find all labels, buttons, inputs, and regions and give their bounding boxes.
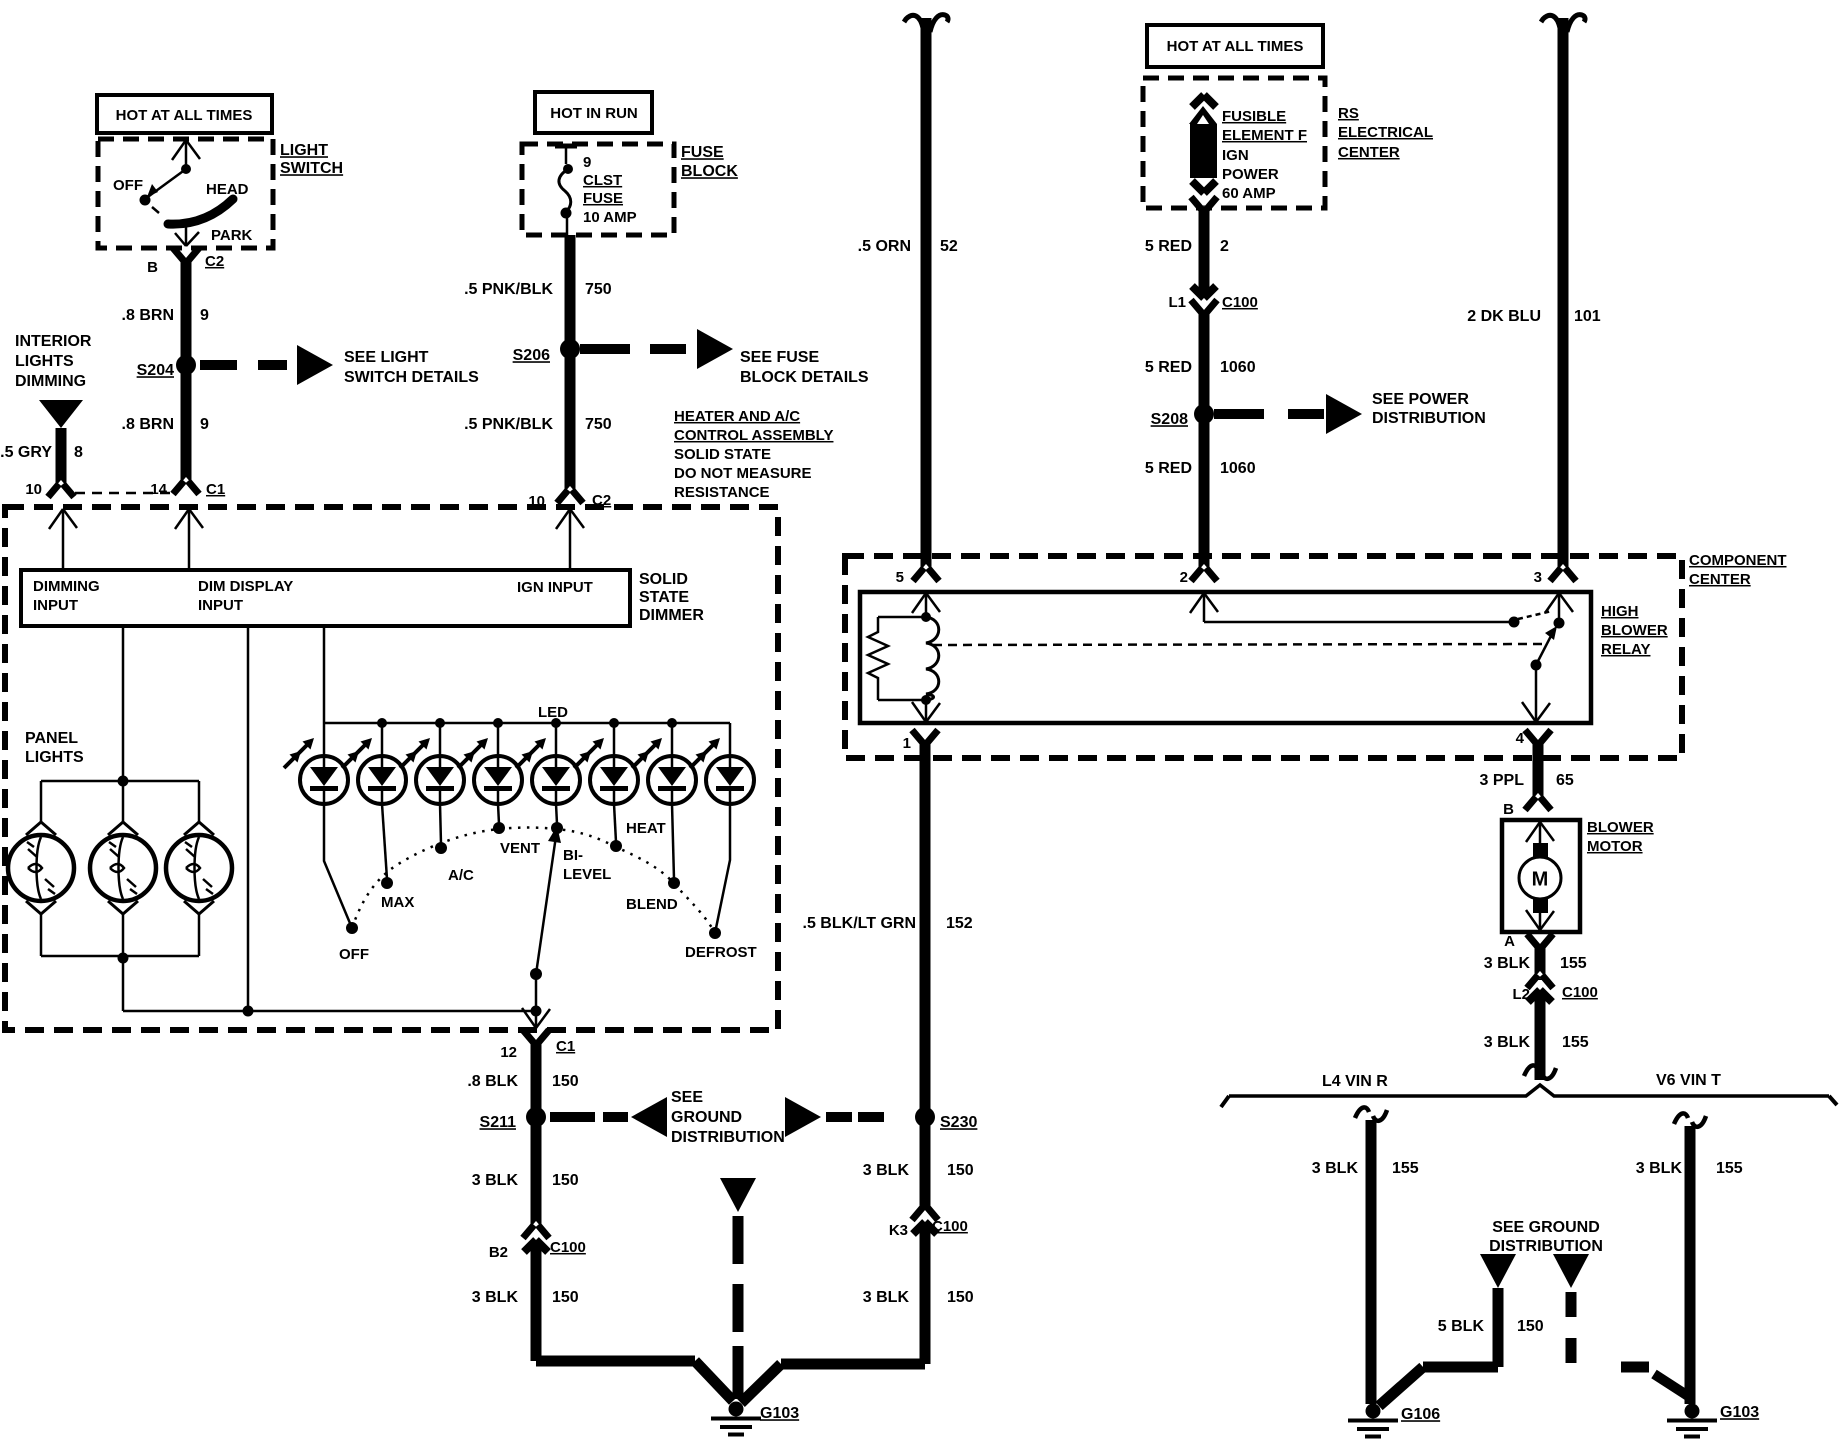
svg-text:ELEMENT F: ELEMENT F — [1222, 127, 1307, 144]
svg-text:PANEL: PANEL — [25, 730, 78, 747]
svg-text:60 AMP: 60 AMP — [1222, 185, 1276, 202]
svg-text:1060: 1060 — [1220, 460, 1256, 477]
svg-text:POWER: POWER — [1222, 166, 1279, 183]
svg-text:12: 12 — [500, 1044, 517, 1061]
svg-text:65: 65 — [1556, 772, 1574, 789]
svg-text:INPUT: INPUT — [33, 597, 78, 614]
svg-text:LIGHTS: LIGHTS — [25, 749, 84, 766]
svg-text:.8 BRN: .8 BRN — [122, 416, 174, 433]
svg-text:INPUT: INPUT — [198, 597, 243, 614]
svg-text:CENTER: CENTER — [1689, 571, 1751, 588]
svg-text:3 BLK: 3 BLK — [863, 1289, 910, 1306]
svg-text:.5 BLK/LT GRN: .5 BLK/LT GRN — [803, 915, 916, 932]
svg-text:DIMMER: DIMMER — [639, 607, 704, 624]
svg-text:FUSE: FUSE — [681, 144, 724, 161]
svg-text:HEAT: HEAT — [626, 820, 666, 837]
svg-text:152: 152 — [946, 915, 973, 932]
svg-text:150: 150 — [947, 1162, 974, 1179]
svg-text:V6 VIN T: V6 VIN T — [1656, 1072, 1721, 1089]
svg-text:FUSIBLE: FUSIBLE — [1222, 108, 1286, 125]
svg-text:VENT: VENT — [500, 840, 540, 857]
svg-text:2: 2 — [1180, 569, 1188, 586]
svg-text:RS: RS — [1338, 105, 1359, 122]
svg-text:C2: C2 — [205, 253, 224, 270]
svg-text:B: B — [147, 259, 158, 276]
svg-text:SOLID: SOLID — [639, 571, 688, 588]
svg-text:1: 1 — [903, 735, 911, 752]
svg-text:5 BLK: 5 BLK — [1438, 1318, 1485, 1335]
svg-text:3 BLK: 3 BLK — [1484, 955, 1531, 972]
svg-text:DEFROST: DEFROST — [685, 944, 757, 961]
svg-text:SWITCH DETAILS: SWITCH DETAILS — [344, 369, 479, 386]
svg-text:2: 2 — [1220, 238, 1229, 255]
svg-text:HEAD: HEAD — [206, 181, 249, 198]
svg-text:.5 ORN: .5 ORN — [858, 238, 911, 255]
svg-text:5 RED: 5 RED — [1145, 460, 1192, 477]
svg-text:BLOCK: BLOCK — [681, 163, 738, 180]
svg-text:MAX: MAX — [381, 894, 414, 911]
svg-text:S204: S204 — [137, 362, 174, 379]
svg-text:DIM DISPLAY: DIM DISPLAY — [198, 578, 293, 595]
svg-text:150: 150 — [552, 1289, 579, 1306]
svg-text:A/C: A/C — [448, 867, 474, 884]
svg-text:155: 155 — [1562, 1034, 1589, 1051]
svg-text:3 BLK: 3 BLK — [1636, 1160, 1683, 1177]
svg-text:ELECTRICAL: ELECTRICAL — [1338, 124, 1433, 141]
svg-text:S208: S208 — [1151, 411, 1188, 428]
svg-text:LIGHT: LIGHT — [280, 142, 328, 159]
svg-text:.8 BRN: .8 BRN — [122, 307, 174, 324]
svg-text:INTERIOR: INTERIOR — [15, 333, 92, 350]
svg-text:HOT IN RUN: HOT IN RUN — [550, 105, 638, 122]
svg-text:S230: S230 — [940, 1114, 977, 1131]
svg-text:3 BLK: 3 BLK — [1312, 1160, 1359, 1177]
svg-text:GROUND: GROUND — [671, 1109, 742, 1126]
svg-text:10: 10 — [25, 481, 42, 498]
svg-text:PARK: PARK — [211, 227, 253, 244]
svg-text:S206: S206 — [513, 347, 550, 364]
svg-text:155: 155 — [1716, 1160, 1743, 1177]
svg-text:SEE: SEE — [671, 1089, 703, 1106]
svg-text:155: 155 — [1560, 955, 1587, 972]
svg-text:150: 150 — [947, 1289, 974, 1306]
svg-text:BLEND: BLEND — [626, 896, 678, 913]
svg-text:DIMMING: DIMMING — [15, 373, 86, 390]
svg-text:DIMMING: DIMMING — [33, 578, 100, 595]
svg-text:MOTOR: MOTOR — [1587, 838, 1643, 855]
svg-text:CLST: CLST — [583, 172, 622, 189]
svg-text:150: 150 — [552, 1073, 579, 1090]
svg-text:5: 5 — [896, 569, 904, 586]
svg-text:5 RED: 5 RED — [1145, 238, 1192, 255]
svg-text:C100: C100 — [550, 1239, 586, 1256]
svg-text:CENTER: CENTER — [1338, 144, 1400, 161]
svg-text:.5 GRY: .5 GRY — [0, 444, 52, 461]
svg-text:FUSE: FUSE — [583, 190, 623, 207]
svg-text:CONTROL ASSEMBLY: CONTROL ASSEMBLY — [674, 427, 833, 444]
svg-text:SWITCH: SWITCH — [280, 160, 343, 177]
svg-text:COMPONENT: COMPONENT — [1689, 552, 1787, 569]
svg-text:M: M — [1532, 868, 1549, 890]
svg-text:B2: B2 — [489, 1244, 508, 1261]
svg-text:HOT AT ALL TIMES: HOT AT ALL TIMES — [116, 107, 253, 124]
svg-text:L4 VIN R: L4 VIN R — [1322, 1073, 1388, 1090]
svg-text:750: 750 — [585, 416, 612, 433]
svg-text:OFF: OFF — [113, 177, 143, 194]
svg-text:101: 101 — [1574, 308, 1601, 325]
svg-text:DISTRIBUTION: DISTRIBUTION — [1489, 1238, 1603, 1255]
svg-text:IGN INPUT: IGN INPUT — [517, 579, 593, 596]
svg-text:BI-: BI- — [563, 847, 583, 864]
svg-text:.8 BLK: .8 BLK — [467, 1073, 518, 1090]
svg-text:SOLID STATE: SOLID STATE — [674, 446, 771, 463]
svg-text:SEE FUSE: SEE FUSE — [740, 349, 819, 366]
svg-text:10 AMP: 10 AMP — [583, 209, 637, 226]
svg-text:C100: C100 — [1562, 984, 1598, 1001]
svg-text:IGN: IGN — [1222, 147, 1249, 164]
svg-text:BLOWER: BLOWER — [1587, 819, 1654, 836]
svg-text:RESISTANCE: RESISTANCE — [674, 484, 770, 501]
svg-text:.5 PNK/BLK: .5 PNK/BLK — [464, 416, 553, 433]
svg-text:SEE LIGHT: SEE LIGHT — [344, 349, 429, 366]
svg-text:SEE POWER: SEE POWER — [1372, 391, 1469, 408]
svg-text:C1: C1 — [556, 1038, 575, 1055]
svg-text:C100: C100 — [1222, 294, 1258, 311]
svg-text:DISTRIBUTION: DISTRIBUTION — [671, 1129, 785, 1146]
svg-text:A: A — [1504, 933, 1515, 950]
svg-text:155: 155 — [1392, 1160, 1419, 1177]
svg-text:K3: K3 — [889, 1222, 908, 1239]
svg-text:3 BLK: 3 BLK — [472, 1289, 519, 1306]
svg-text:C1: C1 — [206, 481, 225, 498]
svg-text:L1: L1 — [1168, 294, 1186, 311]
svg-text:9: 9 — [200, 416, 209, 433]
svg-text:750: 750 — [585, 281, 612, 298]
svg-text:LEVEL: LEVEL — [563, 866, 611, 883]
svg-text:LED: LED — [538, 704, 568, 721]
svg-text:3: 3 — [1534, 569, 1542, 586]
svg-text:14: 14 — [150, 481, 167, 498]
svg-text:SEE GROUND: SEE GROUND — [1492, 1219, 1600, 1236]
svg-text:HEATER AND A/C: HEATER AND A/C — [674, 408, 800, 425]
svg-text:9: 9 — [583, 154, 591, 171]
svg-text:S211: S211 — [480, 1114, 517, 1131]
svg-text:2 DK BLU: 2 DK BLU — [1467, 308, 1541, 325]
svg-text:9: 9 — [200, 307, 209, 324]
svg-text:G103: G103 — [760, 1405, 799, 1422]
svg-text:G103: G103 — [1720, 1404, 1759, 1421]
svg-text:HIGH: HIGH — [1601, 603, 1639, 620]
svg-text:5 RED: 5 RED — [1145, 359, 1192, 376]
svg-text:DO NOT MEASURE: DO NOT MEASURE — [674, 465, 812, 482]
svg-text:8: 8 — [74, 444, 83, 461]
svg-text:G106: G106 — [1401, 1406, 1440, 1423]
svg-text:BLOWER: BLOWER — [1601, 622, 1668, 639]
svg-text:.5 PNK/BLK: .5 PNK/BLK — [464, 281, 553, 298]
svg-text:STATE: STATE — [639, 589, 689, 606]
svg-text:LIGHTS: LIGHTS — [15, 353, 74, 370]
svg-text:3 PPL: 3 PPL — [1480, 772, 1525, 789]
svg-text:150: 150 — [1517, 1318, 1544, 1335]
svg-text:DISTRIBUTION: DISTRIBUTION — [1372, 410, 1486, 427]
svg-text:52: 52 — [940, 238, 958, 255]
svg-text:150: 150 — [552, 1172, 579, 1189]
svg-text:HOT AT ALL TIMES: HOT AT ALL TIMES — [1167, 38, 1304, 55]
svg-text:OFF: OFF — [339, 946, 369, 963]
svg-text:BLOCK DETAILS: BLOCK DETAILS — [740, 369, 869, 386]
svg-text:1060: 1060 — [1220, 359, 1256, 376]
svg-text:B: B — [1503, 801, 1514, 818]
svg-text:3 BLK: 3 BLK — [863, 1162, 910, 1179]
svg-text:3 BLK: 3 BLK — [472, 1172, 519, 1189]
svg-text:3 BLK: 3 BLK — [1484, 1034, 1531, 1051]
svg-text:RELAY: RELAY — [1601, 641, 1650, 658]
